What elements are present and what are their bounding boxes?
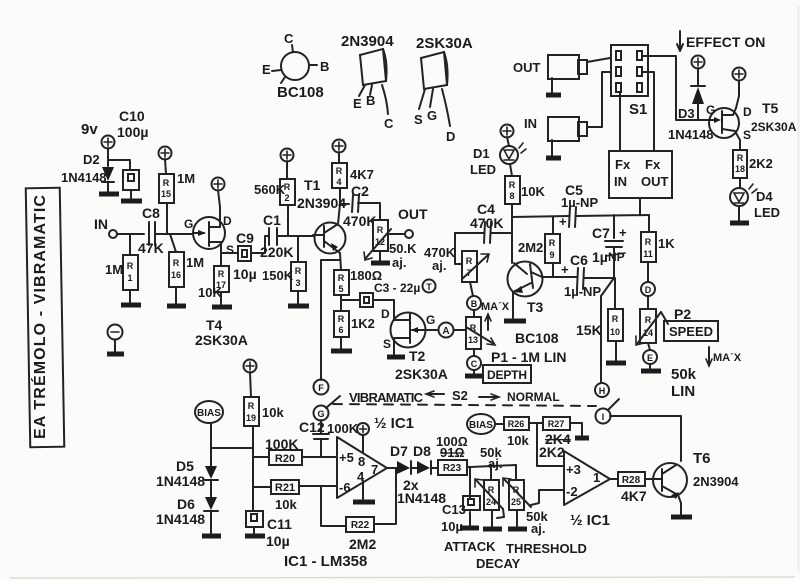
svg-text:1N4148: 1N4148 (156, 473, 205, 489)
svg-text:2SK30A: 2SK30A (751, 120, 797, 134)
node T (423, 280, 436, 293)
svg-text:150K: 150K (262, 268, 294, 283)
resistor R15 1M (159, 171, 195, 234)
svg-text:+: + (561, 262, 569, 277)
capacitor C1 220K (260, 212, 313, 260)
power node above R15 (159, 147, 172, 175)
svg-text:D3: D3 (678, 106, 695, 121)
diode D3 1N4148 (668, 68, 714, 142)
svg-text:OUT: OUT (513, 60, 541, 75)
svg-text:D: D (645, 285, 652, 295)
svg-text:6: 6 (338, 325, 343, 335)
trimmer R7 470K aj (424, 245, 489, 296)
svg-text:R: R (163, 178, 170, 188)
battery minus terminal (107, 325, 124, 355)
svg-text:R28: R28 (622, 475, 641, 486)
svg-text:91Ω: 91Ω (440, 445, 464, 460)
svg-text:R21: R21 (275, 482, 295, 494)
wire IN jack to S1 (587, 72, 611, 127)
wire bias node to R19 column (211, 447, 253, 449)
svg-text:aj.: aj. (392, 255, 406, 270)
svg-text:IN: IN (524, 116, 537, 131)
svg-text:C7: C7 (592, 225, 610, 241)
power node above T5 drain (733, 68, 746, 109)
svg-text:SPEED: SPEED (669, 324, 713, 339)
resistor R16 1M (167, 234, 204, 306)
svg-text:1µ-NP: 1µ-NP (561, 195, 598, 210)
svg-text:G: G (706, 103, 715, 117)
title box EA TREMOLO - VIBRAMATIC (26, 188, 65, 448)
wire S1 to FX IN (619, 92, 621, 151)
svg-text:THRESHOLD: THRESHOLD (506, 541, 587, 556)
svg-text:T2: T2 (409, 348, 426, 364)
svg-text:-6: -6 (339, 480, 351, 495)
led D1 (470, 143, 526, 177)
svg-text:R: R (645, 315, 652, 325)
svg-text:+3: +3 (566, 462, 581, 477)
svg-text:E: E (353, 96, 362, 111)
wire T6 emitter to ground (671, 495, 692, 517)
svg-text:E: E (262, 62, 271, 77)
trimmer R25 50k threshold (503, 465, 548, 536)
svg-text:1N4148: 1N4148 (61, 170, 107, 185)
svg-text:T3: T3 (527, 299, 544, 315)
power node above D1 (501, 125, 514, 147)
node F (314, 380, 329, 395)
svg-text:1µ: 1µ (592, 249, 608, 265)
resistor R11 1K (641, 215, 675, 282)
wire FX box to C5 rail (639, 198, 641, 215)
wire T1 emitter node (340, 253, 341, 270)
svg-text:R23: R23 (443, 463, 462, 474)
svg-text:S2: S2 (452, 388, 468, 403)
svg-text:BIAS: BIAS (197, 408, 221, 419)
svg-text:10: 10 (610, 327, 620, 337)
wire T1 collector (338, 204, 340, 224)
node I (596, 399, 620, 424)
svg-text:S: S (383, 337, 391, 351)
resistor R19 10k (244, 397, 284, 448)
svg-text:2: 2 (284, 193, 289, 203)
svg-text:aj.: aj. (531, 521, 545, 536)
node G (314, 396, 341, 421)
svg-text:DEPTH: DEPTH (487, 368, 527, 382)
svg-text:+: + (619, 225, 627, 240)
svg-text:R20: R20 (275, 453, 295, 465)
output terminal OUT (388, 206, 428, 238)
resistor R27 2K2 (539, 417, 589, 460)
resistor R1 1M (105, 234, 141, 305)
svg-text:IN: IN (614, 174, 627, 189)
svg-text:16: 16 (171, 270, 181, 280)
svg-text:S1: S1 (629, 101, 647, 118)
svg-text:10µ: 10µ (266, 533, 290, 549)
svg-text:T1: T1 (304, 177, 321, 193)
svg-text:1K2: 1K2 (351, 316, 375, 331)
transistor T4 2SK30A input jfet (184, 214, 248, 348)
svg-text:C: C (384, 116, 394, 131)
box FX IN OUT (609, 151, 672, 198)
svg-text:25: 25 (511, 497, 521, 507)
svg-text:10k: 10k (275, 497, 297, 512)
svg-text:D5: D5 (176, 458, 194, 474)
svg-text:P1 - 1M LIN: P1 - 1M LIN (491, 349, 566, 365)
wire op-amp output (387, 467, 397, 469)
potentiometer R13 P1 depth (466, 317, 495, 356)
svg-text:EFFECT ON: EFFECT ON (686, 34, 765, 50)
potentiometer R14 P2 speed (636, 309, 668, 350)
svg-text:10k: 10k (262, 405, 284, 420)
node B (467, 296, 481, 317)
svg-text:½ IC1: ½ IC1 (374, 415, 414, 432)
svg-text:C9: C9 (236, 230, 254, 246)
svg-text:IN: IN (94, 216, 108, 232)
svg-text:LED: LED (470, 162, 496, 177)
label MAX with up arrow at R13 (481, 301, 510, 330)
svg-text:C10: C10 (119, 108, 145, 124)
svg-text:R27: R27 (548, 419, 565, 429)
wire node I to T6 collector (610, 416, 681, 461)
svg-text:R: R (336, 166, 343, 176)
resistor R17 10K (198, 266, 232, 307)
capacitor C13 10u (441, 467, 480, 534)
svg-text:8: 8 (358, 454, 365, 469)
svg-text:4K7: 4K7 (350, 167, 374, 182)
svg-text:T: T (426, 282, 432, 292)
svg-text:100µ: 100µ (117, 124, 148, 140)
resistor R23 (436, 434, 470, 475)
svg-text:C8: C8 (142, 205, 160, 221)
node E (641, 350, 661, 371)
svg-text:T4: T4 (206, 317, 223, 333)
diode D2 1N4148 (61, 152, 119, 194)
svg-text:2N3904: 2N3904 (341, 33, 394, 50)
svg-text:P2: P2 (674, 306, 691, 322)
wire R25 wiper to IC1b inverting input (531, 490, 564, 505)
svg-text:R: R (127, 261, 134, 271)
svg-text:13: 13 (468, 335, 478, 345)
wire OUT jack to S1 (587, 58, 610, 62)
svg-text:+: + (559, 214, 567, 229)
svg-text:DECAY: DECAY (476, 556, 521, 571)
svg-text:G: G (317, 409, 324, 419)
svg-text:19: 19 (246, 413, 256, 423)
svg-text:10µ: 10µ (441, 519, 463, 534)
label 50k LIN (671, 366, 697, 400)
resistor R18 2K2 (733, 150, 773, 178)
svg-text:D8: D8 (413, 443, 431, 459)
wire junction column to C11 (252, 448, 254, 511)
led D4 (730, 178, 780, 223)
svg-text:470K: 470K (470, 215, 503, 231)
wire S1 to FX OUT (643, 72, 654, 151)
wire T4 source node (220, 242, 222, 266)
svg-text:LIN: LIN (671, 383, 695, 400)
battery 9V positive terminal (81, 121, 115, 166)
svg-text:8: 8 (509, 191, 514, 201)
svg-text:-2: -2 (566, 484, 578, 499)
resistor R10 15K (576, 278, 626, 363)
svg-text:MAˊX: MAˊX (713, 352, 742, 364)
resistor R4 4K7 (332, 163, 374, 204)
resistor R21 10k (253, 480, 337, 512)
svg-text:MAˊX: MAˊX (481, 301, 510, 313)
wire bias to IC1b non-inverting input (537, 423, 564, 466)
resistor R6 1K2 (331, 311, 375, 351)
wire 9V to C10 (108, 160, 130, 170)
svg-text:G: G (427, 108, 437, 123)
op-amp U1a LM358 (337, 435, 387, 502)
capacitor C6 1u NP (561, 252, 614, 299)
svg-text:18: 18 (735, 164, 745, 174)
scan artifact bottom edge (10, 577, 795, 578)
node C (465, 356, 484, 376)
switch S1 DPDT (611, 45, 648, 118)
switch S2 dashed line vibramatic normal (333, 388, 596, 406)
capacitor C12 100K (299, 419, 359, 457)
svg-text:1M: 1M (186, 255, 204, 270)
svg-text:C6: C6 (570, 252, 588, 268)
svg-text:R: R (338, 314, 345, 324)
power node above op-amp IC1a (357, 423, 369, 435)
svg-text:aj.: aj. (432, 258, 446, 273)
wire T3 collector to C6 (542, 276, 577, 278)
svg-text:R: R (295, 266, 302, 276)
diode D8 (397, 443, 446, 506)
transistor T1 2N3904 (297, 177, 346, 254)
svg-text:S: S (226, 243, 234, 257)
capacitor C8 47K (138, 205, 193, 256)
svg-text:15K: 15K (576, 322, 602, 338)
svg-text:R22: R22 (351, 520, 370, 531)
svg-text:R26: R26 (508, 419, 525, 429)
node D (641, 282, 655, 309)
capacitor C10 100u (117, 108, 148, 201)
svg-text:D: D (223, 214, 232, 228)
svg-text:11: 11 (643, 249, 653, 259)
diode D5 1N4148 (156, 448, 218, 489)
svg-text:IC1 - LM358: IC1 - LM358 (284, 553, 367, 570)
label P2 and box SPEED (664, 306, 718, 341)
capacitor C2 470K (340, 183, 380, 229)
capacitor C11 10u (245, 511, 292, 549)
svg-text:R: R (173, 258, 180, 268)
svg-text:R: R (338, 273, 345, 283)
wire junction to node H (601, 278, 614, 383)
svg-text:R: R (466, 256, 473, 266)
svg-text:100K: 100K (327, 421, 359, 436)
label EFFECT ON with arrow (677, 31, 765, 51)
svg-text:ATTACK: ATTACK (444, 539, 496, 554)
svg-text:Fx: Fx (615, 157, 631, 172)
svg-text:R: R (377, 225, 384, 235)
diode D7 (390, 443, 417, 474)
box DEPTH (483, 365, 531, 383)
svg-text:+5: +5 (339, 450, 354, 465)
capacitor C5 1u NP (559, 182, 649, 229)
svg-text:10K: 10K (521, 184, 545, 199)
svg-text:2M2: 2M2 (518, 240, 543, 255)
svg-text:C: C (284, 31, 294, 46)
svg-text:9v: 9v (81, 121, 98, 138)
svg-text:B: B (471, 299, 478, 309)
svg-text:S: S (743, 128, 751, 142)
svg-text:1µ-NP: 1µ-NP (564, 284, 601, 299)
svg-text:1: 1 (593, 470, 600, 485)
node H (595, 383, 609, 397)
node BIAS left (195, 401, 223, 448)
svg-text:4K7: 4K7 (621, 488, 647, 504)
svg-text:BC108: BC108 (277, 84, 324, 101)
trimmer R24 50k attack (475, 445, 504, 529)
pinout 2N3904 case drawing (341, 33, 394, 131)
svg-text:2K2: 2K2 (539, 444, 565, 460)
svg-text:R: R (248, 401, 255, 411)
svg-text:D2: D2 (83, 152, 100, 167)
transistor T6 2N3904 (653, 450, 739, 499)
svg-text:5: 5 (338, 284, 343, 294)
wire S1 to effect-on node (643, 56, 710, 120)
svg-text:R: R (737, 153, 744, 163)
svg-text:T6: T6 (693, 450, 711, 467)
capacitor C3 22u (341, 281, 420, 307)
trimmer R12 50K aj (364, 220, 417, 270)
svg-text:1K: 1K (658, 236, 675, 251)
svg-text:D: D (446, 129, 455, 144)
node BIAS right (467, 414, 504, 434)
svg-text:1N4148: 1N4148 (397, 490, 446, 506)
node A (439, 323, 467, 338)
svg-text:NORMAL: NORMAL (507, 390, 560, 404)
resistor R3 150K (262, 236, 309, 306)
svg-text:D: D (381, 307, 390, 321)
svg-text:OUT: OUT (641, 174, 669, 189)
jack OUT (513, 55, 587, 95)
pinout BC108 case drawing (262, 31, 329, 101)
svg-text:S: S (414, 112, 423, 127)
jack IN (524, 116, 587, 158)
svg-text:G: G (184, 217, 193, 231)
svg-text:D4: D4 (756, 189, 773, 204)
svg-text:½ IC1: ½ IC1 (570, 512, 610, 529)
svg-text:D7: D7 (390, 443, 408, 459)
svg-text:D6: D6 (177, 496, 195, 512)
svg-text:BIAS: BIAS (469, 420, 493, 431)
resistor R28 4K7 (610, 472, 653, 504)
svg-text:560K: 560K (254, 182, 286, 197)
svg-text:R: R (645, 237, 652, 247)
scan artifact right edge (798, 6, 800, 572)
svg-text:3: 3 (295, 278, 300, 288)
svg-text:BC108: BC108 (515, 330, 559, 346)
svg-text:C: C (471, 359, 478, 369)
wire supply rail to C5 (512, 216, 569, 217)
svg-text:1M: 1M (177, 171, 195, 186)
svg-text:LED: LED (754, 205, 780, 220)
svg-text:50.K: 50.K (389, 241, 417, 256)
wire attack decay rail (470, 465, 516, 467)
svg-text:2SK30A: 2SK30A (195, 332, 248, 348)
svg-text:1N4148: 1N4148 (668, 127, 714, 142)
svg-text:C3 - 22µ: C3 - 22µ (374, 281, 420, 295)
svg-text:10k: 10k (507, 433, 529, 448)
svg-text:9: 9 (549, 250, 554, 260)
svg-text:Fx: Fx (645, 157, 661, 172)
svg-text:2N3904: 2N3904 (693, 474, 739, 489)
transistor T5 2SK30A (706, 100, 797, 142)
pinout 2SK30A case drawing (414, 35, 473, 144)
svg-text:R: R (549, 238, 556, 248)
wire emitter to node F (321, 260, 340, 380)
label MAX down arrow near speed (706, 347, 742, 366)
svg-text:B: B (320, 59, 329, 74)
resistor R2 560K (254, 179, 295, 236)
svg-text:50k: 50k (671, 366, 697, 383)
svg-text:E: E (647, 353, 653, 363)
svg-text:F: F (318, 383, 324, 393)
resistor R5 180ohm (334, 268, 382, 311)
svg-text:1: 1 (127, 273, 132, 283)
svg-text:7: 7 (371, 462, 378, 477)
svg-text:R: R (509, 180, 516, 190)
resistor R8 10K (505, 176, 545, 204)
svg-text:2M2: 2M2 (349, 536, 376, 552)
svg-text:H: H (599, 386, 606, 396)
power node above R19 (244, 360, 257, 398)
svg-text:47K: 47K (138, 240, 164, 256)
input terminal IN (94, 216, 144, 238)
capacitor C4 470K (455, 201, 512, 264)
resistor R20 100K (253, 436, 337, 465)
resistor R26 10k (504, 417, 543, 448)
svg-text:470K: 470K (343, 213, 376, 229)
transistor T2 2SK30A (381, 300, 448, 382)
wire T5 source to R18 (736, 133, 740, 150)
capacitor C9 10u (221, 230, 268, 282)
svg-text:T5: T5 (762, 100, 779, 116)
svg-text:10K: 10K (198, 285, 222, 300)
svg-text:R: R (612, 314, 619, 324)
power node above D3 (692, 56, 705, 69)
resistor R9 2M2 (518, 217, 560, 277)
svg-text:1M: 1M (105, 262, 123, 277)
svg-text:10µ: 10µ (233, 266, 257, 282)
svg-text:2SK30A: 2SK30A (395, 366, 448, 382)
wire R8 node down to T3 base (511, 204, 513, 263)
svg-text:4: 4 (336, 177, 341, 187)
diode D6 1N4148 (156, 480, 221, 536)
svg-text:C1: C1 (263, 212, 281, 228)
svg-text:220K: 220K (260, 244, 293, 260)
op-amp U1b LM358 (564, 451, 610, 505)
svg-text:D: D (743, 105, 752, 119)
svg-text:D1: D1 (473, 146, 490, 161)
transistor T3 BC108 (504, 262, 559, 347)
svg-text:B: B (366, 93, 375, 108)
svg-text:C11: C11 (267, 516, 292, 532)
resistor R22 2M2 feedback (321, 468, 396, 552)
svg-text:VIBRAMATIC: VIBRAMATIC (349, 390, 424, 405)
svg-text:A: A (442, 326, 449, 337)
power node above T4 drain (212, 178, 225, 228)
svg-text:2K2: 2K2 (749, 156, 773, 171)
power node above R4 (333, 140, 346, 164)
svg-text:15: 15 (161, 189, 171, 199)
capacitor C7 1u NP (592, 215, 627, 278)
svg-text:G: G (426, 313, 435, 327)
svg-text:2SK30A: 2SK30A (416, 35, 473, 52)
svg-text:1N4148: 1N4148 (156, 511, 205, 527)
